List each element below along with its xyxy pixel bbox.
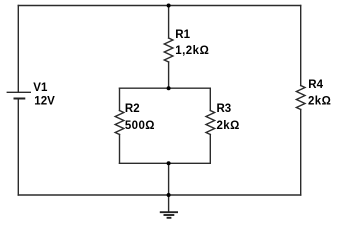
junction node bottom (167, 193, 171, 197)
ground bar 1 (160, 211, 178, 213)
wire right upper (R4 top lead) (300, 6, 302, 86)
junction node top (167, 4, 171, 8)
svg-text:R4: R4 (308, 79, 323, 91)
wire bottom (18, 194, 300, 196)
svg-text:500Ω: 500Ω (125, 120, 155, 132)
wire middle lower (node to bottom) (168, 163, 170, 195)
svg-text:12V: 12V (34, 96, 55, 108)
ground bar 2 (164, 214, 175, 216)
junction node box top (167, 86, 171, 90)
ground stem (168, 195, 170, 212)
svg-text:1,2kΩ: 1,2kΩ (175, 45, 209, 57)
wire box right lower (R3 bottom lead) (209, 135, 211, 164)
wire middle mid (R1 bottom lead) (168, 62, 170, 88)
svg-text:V1: V1 (33, 82, 48, 94)
wire left lower (V1 negative lead) (17, 99, 19, 196)
wire box right upper (R3 top lead) (209, 88, 211, 110)
wire box left lower (R2 bottom lead) (119, 135, 121, 164)
resistor R4 (296, 86, 305, 110)
wire box left upper (R2 top lead) (119, 88, 121, 110)
svg-text:R2: R2 (125, 103, 140, 115)
resistor R1 (164, 38, 173, 62)
svg-text:R1: R1 (175, 29, 190, 41)
wire right lower (R4 bottom lead) (300, 110, 302, 196)
wire parallel box top (120, 87, 211, 89)
battery V1 positive plate (7, 91, 30, 93)
junction node box bottom (167, 161, 171, 165)
resistor R2 (115, 111, 124, 135)
svg-text:R3: R3 (217, 103, 232, 115)
ground bar 3 (167, 217, 172, 219)
wire left upper (V1 positive lead) (17, 6, 19, 93)
battery V1 negative plate (14, 98, 26, 100)
wire parallel box bottom (120, 162, 211, 164)
svg-text:2kΩ: 2kΩ (308, 96, 331, 108)
svg-text:2kΩ: 2kΩ (217, 120, 240, 132)
resistor R3 (206, 111, 215, 135)
wire top (18, 5, 300, 7)
wire middle top (R1 top lead) (168, 6, 170, 39)
